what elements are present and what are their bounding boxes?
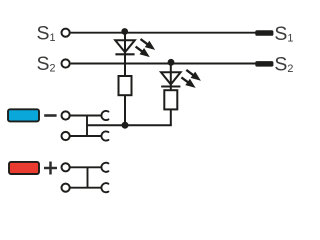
resistor R1	[119, 76, 132, 95]
plus marker (red)	[9, 162, 39, 174]
node junction dot on minus bus	[122, 122, 129, 129]
wire R2 bottom lead down	[170, 109, 172, 125]
minus marker (blue)	[8, 109, 39, 121]
svg-text:S2: S2	[274, 54, 293, 76]
svg-text:S1: S1	[37, 22, 56, 44]
wire commoning bar plus	[87, 167, 89, 187]
contact arc minus lower	[101, 131, 108, 140]
contact arc plus lower	[101, 183, 108, 192]
wire LED2 anode lead to R2	[170, 64, 172, 91]
terminal circle S1 left	[62, 29, 70, 37]
wire rail S1 (left terminal to right terminal)	[71, 32, 256, 34]
svg-text:S1: S1	[274, 23, 293, 45]
wire clamp lower to contact	[70, 135, 102, 137]
terminal bar S1 right	[255, 30, 273, 36]
LED D2 emission arrow lower	[181, 77, 195, 88]
clamp circle plus lower	[62, 184, 70, 192]
clamp circle minus lower	[62, 132, 70, 140]
wire commoning bar minus	[86, 116, 88, 137]
wire clamp lower to contact	[70, 187, 102, 189]
LED D1 (triangle + cathode bar)	[115, 40, 135, 54]
plus sign	[44, 162, 57, 175]
node junction dot on S1 rail	[121, 28, 128, 35]
terminal circle S2 left	[62, 59, 70, 67]
wire LED1 anode lead / through S2 rail to R1	[124, 33, 126, 76]
wire clamp upper to contact	[70, 115, 102, 117]
node junction dot on S2 rail	[168, 59, 175, 66]
wire R1 bottom to minus bus	[124, 95, 126, 125]
LED D2 (triangle + cathode bar)	[161, 72, 181, 86]
LED D2 emission arrow upper	[186, 70, 201, 81]
clamp circle minus upper	[62, 111, 70, 119]
terminal bar S2 right	[255, 61, 273, 67]
contact arc minus upper	[101, 111, 108, 120]
wire clamp upper to contact	[70, 166, 102, 168]
minus sign	[44, 114, 56, 117]
wire minus bus (fork to R2 drop)	[87, 124, 172, 126]
resistor R2	[164, 90, 177, 109]
LED D1 emission arrow lower	[136, 47, 150, 58]
wire rail S2 (left terminal to right terminal)	[71, 63, 256, 65]
contact arc plus upper	[101, 163, 108, 172]
clamp circle plus upper	[62, 163, 70, 171]
LED D1 emission arrow upper	[141, 39, 156, 50]
svg-text:S2: S2	[37, 53, 56, 75]
